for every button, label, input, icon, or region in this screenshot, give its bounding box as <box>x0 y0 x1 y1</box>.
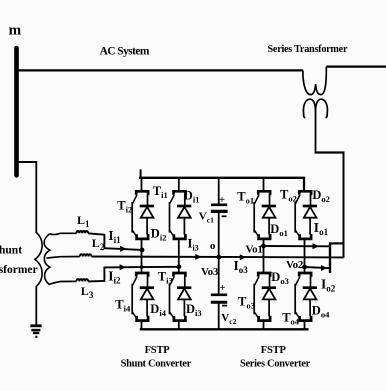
svg-text:Ii2: Ii2 <box>108 268 121 285</box>
wire top rail <box>139 178 304 191</box>
wire leg4 bottom <box>304 321 306 330</box>
wire output vertical <box>329 243 331 273</box>
wire leg3 bottom <box>263 321 265 330</box>
wire mid line <box>91 256 343 259</box>
IGBT T_o4 / diode D_o4 pair symbol <box>295 273 317 321</box>
svg-text:Ti1: Ti1 <box>153 184 168 200</box>
svg-text:Series Transformer: Series Transformer <box>268 44 348 55</box>
ground <box>30 326 41 337</box>
svg-text:transformer: transformer <box>0 264 38 276</box>
svg-text:Ii1: Ii1 <box>108 228 121 245</box>
node leg2 midpoint <box>176 264 181 269</box>
wire C1 to node o <box>218 213 220 258</box>
arrow Vo1 output <box>313 243 319 249</box>
svg-text:Shunt: Shunt <box>0 244 22 256</box>
capacitor C2 <box>211 295 227 303</box>
arrow I_i2 <box>120 264 126 270</box>
shunt transformer primary <box>35 232 42 286</box>
svg-text:Do1: Do1 <box>270 222 288 238</box>
svg-text:L2: L2 <box>92 236 105 252</box>
svg-text:AC System: AC System <box>100 45 150 57</box>
svg-text:Do3: Do3 <box>271 270 289 286</box>
svg-text:L1: L1 <box>77 213 90 229</box>
series transformer primary <box>303 67 326 95</box>
wire C2 bottom <box>218 304 220 330</box>
svg-text:Vo2: Vo2 <box>286 259 304 271</box>
svg-text:To4: To4 <box>282 310 300 326</box>
svg-text:FSTP: FSTP <box>261 345 287 356</box>
svg-text:Di1: Di1 <box>184 188 200 204</box>
wire primary to ground <box>35 286 37 325</box>
wire leg1 bottom <box>141 321 143 330</box>
svg-text:To2: To2 <box>280 188 297 204</box>
arrow I_i1 <box>120 246 126 252</box>
wire return vertical <box>343 152 345 258</box>
svg-text:Do4: Do4 <box>312 304 330 320</box>
svg-text:Vo3: Vo3 <box>201 266 219 278</box>
inductor L3 <box>77 279 89 281</box>
wire line1 to leg1 <box>88 233 142 250</box>
bus bar (PCC) <box>14 48 19 175</box>
C1 minus sign <box>222 215 227 217</box>
wire bottom rail <box>140 328 309 330</box>
capacitor C1 <box>211 205 228 212</box>
arrow Vo2 output <box>321 265 327 271</box>
IGBT T_i2 / diode D_i2 pair symbol <box>132 191 154 239</box>
IGBT T_o1 / diode D_o1 pair symbol <box>254 191 276 239</box>
shunt transformer secondary <box>44 234 50 285</box>
svg-text:m: m <box>9 22 22 38</box>
node leg1 midpoint <box>140 248 145 253</box>
C2 minus sign <box>222 305 227 307</box>
wire leg2 bottom <box>178 321 180 330</box>
svg-text:To1: To1 <box>237 190 254 206</box>
svg-text:Ii3: Ii3 <box>187 235 198 252</box>
wire shunt branch horizontal <box>17 161 37 163</box>
svg-text:Ti4: Ti4 <box>115 298 131 314</box>
IGBT T_i3 / diode D_i3 pair symbol <box>170 273 192 321</box>
wire tap2 from secondary <box>46 257 79 259</box>
wire leg1 top drop <box>141 178 143 191</box>
svg-text:Io1: Io1 <box>314 220 329 237</box>
node o dot <box>216 255 221 260</box>
svg-text:Di4: Di4 <box>150 302 166 318</box>
svg-text:+: + <box>219 195 225 206</box>
IGBT T_i4 / diode D_i4 pair symbol <box>132 273 154 321</box>
wire node o to C2 <box>218 257 220 294</box>
svg-text:Vo1: Vo1 <box>246 244 263 256</box>
svg-text:Vc2: Vc2 <box>221 312 236 326</box>
wire shunt branch down <box>35 161 37 233</box>
wire line3 to leg2 <box>88 267 179 282</box>
series transformer secondary <box>303 99 327 117</box>
svg-text:Do2: Do2 <box>312 188 330 204</box>
inductor L1 <box>77 231 89 233</box>
node Vo1 <box>261 244 266 249</box>
IGBT T_o3 / diode D_o3 pair symbol <box>254 273 276 321</box>
svg-text:+: + <box>220 283 226 294</box>
wire series secondary down <box>315 107 317 153</box>
wire leg2 top drop <box>178 178 180 191</box>
svg-text:Series Converter: Series Converter <box>240 358 311 369</box>
svg-text:o: o <box>210 240 216 252</box>
inductor L2 <box>80 254 92 256</box>
svg-text:Io3: Io3 <box>234 258 249 275</box>
wire tap1 from secondary <box>50 233 77 234</box>
wire C1 top <box>218 178 220 204</box>
wire leg1 mid <box>141 239 143 272</box>
svg-text:Io2: Io2 <box>321 277 336 294</box>
wire leg1 stub above rail <box>140 169 142 178</box>
arrow I_o3 <box>240 254 246 260</box>
svg-text:L3: L3 <box>81 284 94 300</box>
wire AC line left <box>17 69 303 71</box>
svg-text:Di2: Di2 <box>151 227 167 243</box>
svg-text:Di3: Di3 <box>186 302 202 318</box>
svg-text:Ti2: Ti2 <box>117 198 132 214</box>
wire Vo1 output <box>264 245 331 247</box>
wire output to return <box>329 242 344 244</box>
wire leg4 mid <box>304 239 306 272</box>
node line3 crosses leg1 <box>140 265 144 269</box>
IGBT T_o2 / diode D_o2 pair symbol <box>295 191 317 239</box>
svg-text:Ti3: Ti3 <box>158 269 173 285</box>
wire tap3 from secondary <box>50 281 77 284</box>
wire leg3 top drop <box>263 178 265 191</box>
svg-text:FSTP: FSTP <box>145 345 171 356</box>
svg-text:Shunt Converter: Shunt Converter <box>121 358 192 369</box>
wire Vo2 output <box>305 267 331 268</box>
arrow I_i3 <box>195 254 201 260</box>
wire leg3 mid <box>263 239 265 272</box>
svg-text:To3: To3 <box>238 295 255 311</box>
wire AC line right <box>326 65 386 67</box>
IGBT T_i1 / diode D_i1 pair symbol <box>170 191 192 239</box>
wire leg2 mid <box>178 239 180 272</box>
node Vo2 <box>302 265 307 270</box>
wire secondary to return <box>315 151 345 153</box>
